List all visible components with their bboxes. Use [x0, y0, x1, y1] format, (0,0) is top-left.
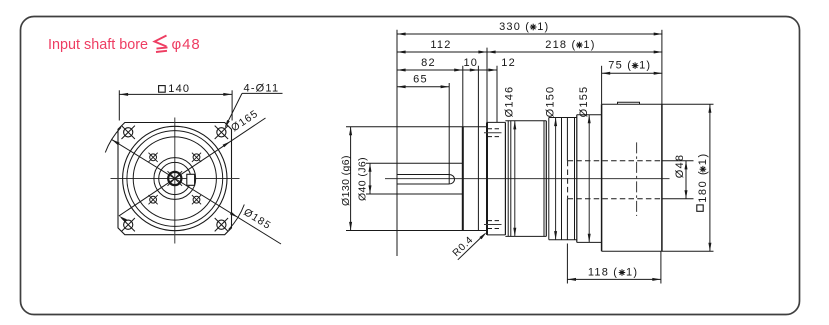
dim D146	[514, 121, 516, 237]
ring edge (118 ref)	[566, 118, 568, 161]
dim [.]180 with extensions	[662, 103, 714, 105]
svg-text:112: 112	[430, 39, 451, 51]
hub circle outer	[154, 158, 196, 200]
front view centerlines	[111, 178, 240, 180]
D150 section top edge	[549, 117, 577, 119]
input block left face + extension	[601, 66, 603, 104]
circle (body step)	[127, 131, 223, 227]
flange bottom edge	[487, 234, 505, 236]
dim D40(J6)	[369, 163, 371, 194]
dim D155	[588, 115, 590, 243]
step pair to D155	[574, 118, 576, 240]
dim D185 diagonal line	[112, 139, 282, 244]
hidden input bore D48	[568, 160, 662, 162]
ring edge	[561, 118, 563, 240]
dim 330	[397, 33, 662, 35]
svg-text:1): 1)	[626, 266, 638, 278]
svg-text:118 (: 118 (	[588, 266, 618, 278]
keyway slot bottom	[397, 183, 449, 185]
dim 118	[567, 278, 661, 280]
flange top edge	[487, 121, 505, 123]
extension line (12)	[496, 66, 498, 123]
flange face (thick) + extension	[486, 48, 488, 123]
center shaft circle (thick) with cross	[168, 172, 181, 185]
R0.4 leader	[458, 234, 485, 260]
D185 arc at lower-right corner	[229, 205, 245, 230]
dim D165 diagonal line	[119, 118, 266, 216]
hub circle inner (bore)	[159, 162, 191, 194]
svg-text:Ø146: Ø146	[504, 86, 516, 118]
D146 section bottom edge	[505, 235, 546, 237]
svg-text:1): 1)	[537, 21, 549, 33]
circle (inner step)	[133, 137, 216, 220]
D185 arc at upper-left corner	[105, 127, 121, 152]
dim [.]140	[120, 93, 232, 95]
top tab on block	[618, 102, 640, 104]
svg-text:75 (: 75 (	[608, 60, 632, 72]
svg-text:Ø130 (g6): Ø130 (g6)	[340, 155, 352, 206]
keyway end chord + extension	[448, 83, 450, 184]
D146 section top edge	[505, 120, 546, 122]
svg-text:Input shaft bore: Input shaft bore	[48, 36, 148, 53]
dim D48 with extensions	[662, 160, 694, 162]
front view: square flange outline	[118, 123, 232, 235]
keyway round end	[449, 175, 454, 185]
side view main centerline	[385, 178, 670, 180]
svg-text:10: 10	[463, 57, 478, 69]
dim 65	[397, 86, 449, 88]
4 small tapped holes	[150, 154, 157, 161]
svg-text:180 (: 180 (	[697, 170, 709, 203]
flange bolt hole top (hidden)	[488, 128, 500, 130]
D130 cylinder top edge (with extension)	[346, 126, 487, 128]
motor shaft center mark (dash-dot)	[636, 142, 638, 216]
input block top edge	[602, 103, 662, 105]
dim D150	[555, 118, 557, 240]
svg-text:Ø150: Ø150	[544, 86, 556, 118]
D155 section bottom edge	[577, 241, 602, 243]
dim 112 / 218	[397, 51, 662, 53]
input block right face + extensions	[661, 30, 663, 104]
svg-text:Ø40 (J6): Ø40 (J6)	[357, 157, 369, 201]
output shaft D40 top edge	[366, 162, 463, 164]
flange right face	[504, 122, 506, 234]
svg-text:82: 82	[421, 57, 436, 69]
svg-text:Ø48: Ø48	[674, 154, 686, 178]
gearbox output face (thick)	[462, 66, 464, 127]
svg-text:140: 140	[168, 83, 190, 95]
dim 75	[602, 72, 663, 74]
input block bottom edge	[602, 250, 662, 252]
4 corner bolt holes 4-D11	[124, 128, 133, 137]
keyway rectangle	[187, 174, 195, 185]
extension 118 left	[566, 244, 568, 284]
ring grooves	[507, 121, 509, 237]
dim 82 / 10 / 12	[397, 69, 497, 71]
keyway slot top	[397, 174, 449, 176]
flange bolt hole bottom (hidden)	[488, 220, 500, 222]
dim D130(g6)	[350, 127, 352, 231]
svg-text:65: 65	[413, 74, 428, 86]
svg-text:218 (: 218 (	[545, 39, 576, 51]
D155 section top edge	[577, 114, 602, 116]
circle D130 outline	[123, 126, 227, 230]
output shaft D40 bottom edge	[366, 193, 463, 195]
ring edge	[477, 66, 479, 231]
svg-text:1): 1)	[639, 60, 651, 72]
D130 cylinder bottom edge (with extension)	[346, 230, 487, 232]
D146 right step lines	[543, 121, 545, 237]
svg-text:Ø155: Ø155	[578, 86, 590, 118]
svg-text:1): 1)	[583, 39, 595, 51]
svg-text:1): 1)	[697, 152, 709, 165]
shaft tip / extension line	[396, 30, 398, 256]
svg-text:12: 12	[501, 57, 516, 69]
svg-text:330 (: 330 (	[499, 21, 530, 33]
D150 section bottom edge	[549, 239, 577, 241]
svg-text:4-Ø11: 4-Ø11	[244, 82, 280, 94]
svg-text:φ48: φ48	[172, 36, 201, 53]
